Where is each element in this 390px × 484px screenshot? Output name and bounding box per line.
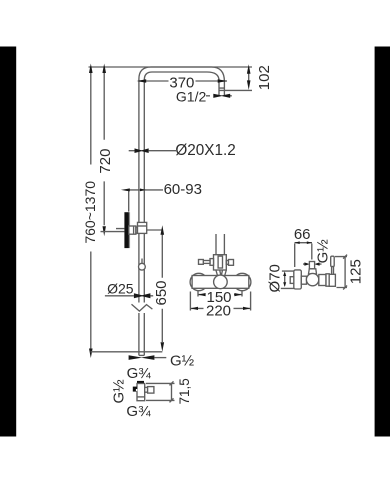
svg-text:220: 220	[206, 302, 231, 319]
svg-text:Ø20X1.2: Ø20X1.2	[175, 142, 235, 159]
svg-text:760~1370: 760~1370	[82, 181, 98, 244]
svg-text:650: 650	[153, 280, 170, 305]
svg-text:G½: G½	[315, 239, 332, 264]
svg-text:102: 102	[256, 65, 273, 90]
svg-text:Ø25: Ø25	[107, 280, 134, 296]
svg-text:60-93: 60-93	[164, 181, 202, 198]
svg-text:G¾: G¾	[126, 403, 151, 420]
svg-text:720: 720	[97, 149, 114, 174]
svg-text:G¾: G¾	[127, 365, 152, 382]
svg-text:66: 66	[294, 226, 311, 243]
svg-text:G1/2: G1/2	[176, 89, 207, 105]
svg-text:G½: G½	[110, 379, 127, 404]
svg-text:125: 125	[348, 259, 365, 284]
svg-text:71,5: 71,5	[177, 378, 192, 404]
svg-text:G½: G½	[170, 353, 195, 370]
svg-text:Ø70: Ø70	[266, 264, 283, 292]
